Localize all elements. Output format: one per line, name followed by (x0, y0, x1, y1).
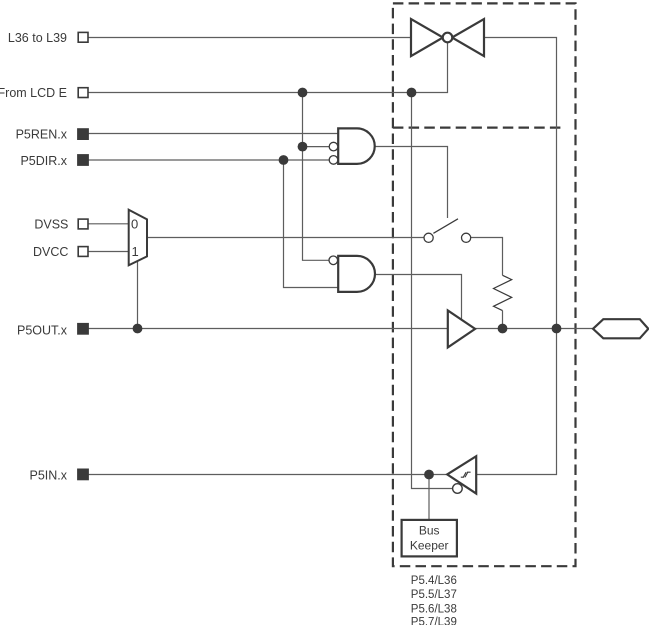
wire branch to gate1 middle input (303, 146, 330, 148)
wire mux select down to P5OUT (137, 261, 139, 329)
and-gate G2 input bubble top (329, 256, 338, 265)
terminal P5REN.x (78, 129, 88, 139)
mux M1 body (129, 210, 147, 266)
wire transmission gate output to right (476, 38, 556, 475)
bus keeper B1 box (402, 520, 457, 557)
dashed module box outer (393, 3, 576, 566)
switch S1 lever (433, 219, 458, 234)
wire P5IN.x to schmitt output (88, 474, 447, 476)
node junction From LCD E / enable branch (407, 88, 417, 98)
wire P5DIR.x (88, 159, 329, 161)
wire From LCD E branch down to AND gates (303, 93, 330, 261)
svg-text:P5IN.x: P5IN.x (29, 469, 67, 483)
svg-text:P5OUT.x: P5OUT.x (17, 324, 68, 338)
terminal P5OUT.x (78, 324, 88, 334)
svg-text:1: 1 (132, 244, 139, 259)
resistor R1 (494, 275, 512, 310)
svg-text:DVSS: DVSS (34, 218, 68, 232)
switch S1 left contact (424, 233, 433, 242)
svg-text:P5.7/L39: P5.7/L39 (411, 616, 457, 625)
schmitt trigger U3 input buffer (447, 456, 476, 493)
schmitt trigger U3 enable bubble (453, 484, 463, 494)
terminal From LCD E (78, 88, 88, 98)
svg-text:Bus: Bus (419, 523, 440, 537)
node junction resistor / output line (498, 324, 508, 334)
wire buffer output to pad (475, 328, 593, 330)
svg-text:P5REN.x: P5REN.x (16, 127, 68, 141)
svg-text:DVCC: DVCC (33, 245, 68, 259)
transmission gate U1 left triangle (411, 19, 443, 56)
wire switch to resistor top (471, 238, 503, 276)
pad P1 (593, 319, 648, 338)
node junction From LCD E / gate branch (298, 88, 308, 98)
wire DVCC to mux (88, 251, 129, 253)
terminal P5DIR.x (78, 155, 88, 165)
buffer U2 output driver (448, 311, 475, 348)
svg-text:P5.4/L36: P5.4/L36 (411, 575, 457, 587)
dashed divider line (393, 126, 562, 128)
node junction P5IN / bus keeper (424, 470, 434, 480)
terminal L36 to L39 (78, 32, 88, 42)
svg-text:P5.5/L37: P5.5/L37 (411, 589, 457, 601)
svg-text:Keeper: Keeper (410, 539, 449, 553)
wire P5DIR branch down to gate2 (284, 160, 339, 288)
wire resistor bottom to output line (502, 311, 504, 329)
node junction mux select / P5OUT (133, 324, 143, 334)
svg-text:0: 0 (131, 217, 138, 232)
and-gate G1 body (338, 128, 375, 164)
wire P5OUT.x to buffer input (88, 328, 448, 330)
terminal DVCC (78, 247, 88, 257)
wire gate2 output to buffer enable (375, 275, 462, 320)
wire gate1 output to switch control (375, 147, 448, 219)
wire P5REN.x (88, 133, 338, 135)
and-gate G1 input bubble middle (329, 142, 338, 151)
svg-text:L36 to L39: L36 to L39 (8, 31, 67, 45)
transmission gate U1 right triangle (452, 19, 484, 56)
terminal P5IN.x (78, 469, 88, 479)
and-gate G1 input bubble bottom (329, 156, 338, 165)
wire DVSS to mux (88, 223, 129, 225)
terminal DVSS (78, 219, 88, 229)
wire P5IN branch to bus keeper (428, 475, 430, 520)
node junction P5DIR branch (279, 155, 289, 165)
svg-text:From LCD E: From LCD E (0, 86, 67, 100)
wire schmitt enable from LCD E branch (412, 93, 453, 489)
wire From LCD E (88, 42, 448, 92)
node junction gate1 middle input (298, 142, 308, 152)
svg-text:P5DIR.x: P5DIR.x (20, 154, 67, 168)
and-gate G2 body (338, 256, 375, 292)
schmitt trigger U3 hysteresis mark (461, 472, 471, 477)
switch S1 right contact (462, 233, 471, 242)
wire L36 to L39 input (88, 37, 411, 39)
transmission gate U1 bubble (443, 33, 453, 43)
svg-text:P5.6/L38: P5.6/L38 (411, 604, 457, 616)
wire mux output to switch (147, 237, 424, 239)
node junction pad line / feedback (552, 324, 562, 334)
